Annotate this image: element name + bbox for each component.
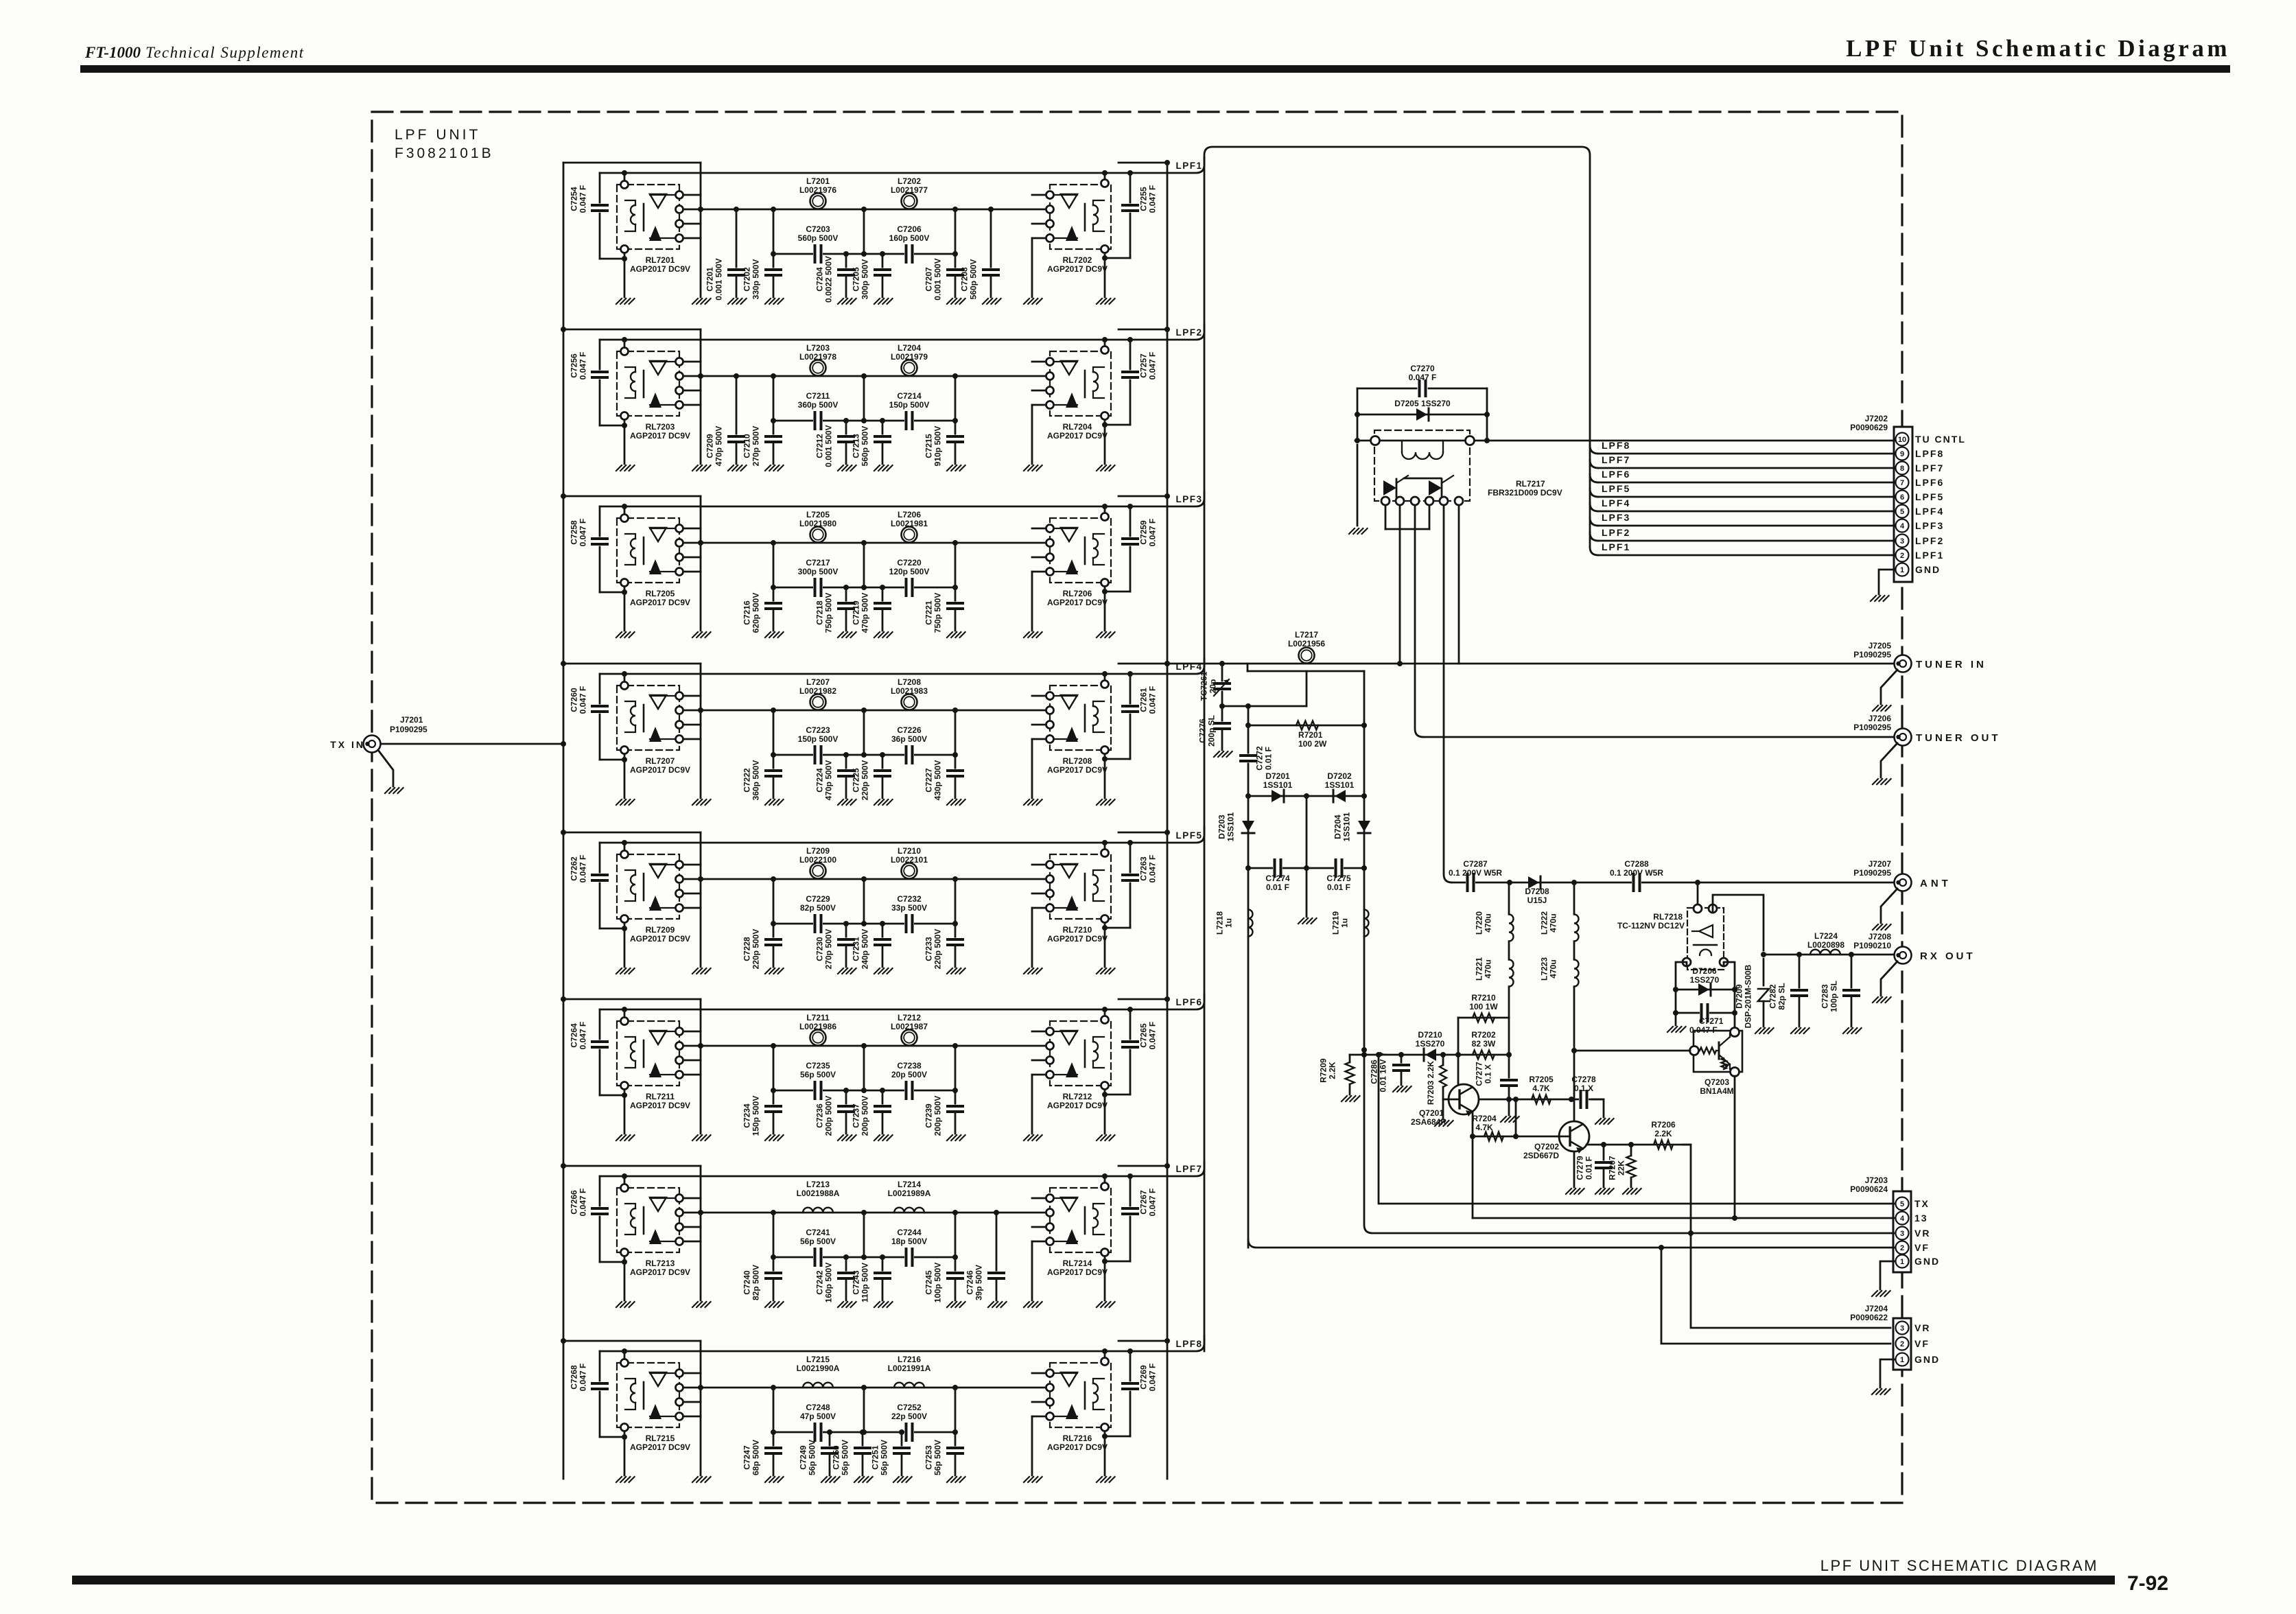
svg-text:C7259: C7259 bbox=[1139, 520, 1149, 545]
svg-text:C7271: C7271 bbox=[1699, 1016, 1724, 1026]
svg-text:P0090629: P0090629 bbox=[1850, 423, 1888, 432]
diode D7210 1SS270 bbox=[1425, 1049, 1436, 1061]
wire Q7202 emitter to ground bbox=[1573, 1151, 1575, 1187]
svg-text:0.047 F: 0.047 F bbox=[578, 1364, 588, 1392]
svg-text:LPF8: LPF8 bbox=[1175, 1339, 1202, 1349]
branch line bbox=[773, 253, 955, 255]
svg-text:DSP-201M-S00B: DSP-201M-S00B bbox=[1744, 964, 1753, 1028]
svg-text:C7239: C7239 bbox=[924, 1103, 934, 1128]
svg-text:R7209: R7209 bbox=[1319, 1058, 1328, 1083]
capacitor C7235 56p 500V bbox=[813, 1082, 823, 1099]
capacitor C7262 0.047F bbox=[599, 843, 601, 872]
coil rail bbox=[600, 491, 1204, 506]
svg-text:8: 8 bbox=[1900, 465, 1904, 473]
svg-text:1SS270: 1SS270 bbox=[1690, 975, 1720, 985]
svg-text:L0022101: L0022101 bbox=[891, 855, 928, 865]
pin 3 VR bbox=[1896, 1227, 1909, 1240]
svg-text:470u: 470u bbox=[1484, 913, 1493, 932]
main filter line bbox=[683, 710, 1046, 712]
svg-text:L0021977: L0021977 bbox=[891, 185, 928, 195]
svg-text:C7204: C7204 bbox=[815, 267, 825, 292]
svg-text:C7210: C7210 bbox=[742, 434, 752, 458]
svg-text:RL7202: RL7202 bbox=[1063, 255, 1092, 265]
transistor Q7202 2SD667D bbox=[1559, 1121, 1589, 1151]
svg-text:C7267: C7267 bbox=[1139, 1190, 1149, 1215]
svg-text:C7268: C7268 bbox=[570, 1365, 579, 1390]
svg-text:L7216: L7216 bbox=[898, 1355, 921, 1364]
svg-text:L0021990A: L0021990A bbox=[797, 1364, 840, 1373]
capacitor C7258 0.047F bbox=[599, 506, 601, 536]
pin 3 LPF2 bbox=[1896, 535, 1909, 548]
inductor L7221 470u bbox=[1508, 941, 1510, 959]
svg-text:L7208: L7208 bbox=[898, 677, 921, 687]
wire LPF4 bus bbox=[1598, 511, 1895, 513]
svg-text:LPF3: LPF3 bbox=[1915, 520, 1944, 531]
svg-text:L7212: L7212 bbox=[898, 1013, 921, 1022]
svg-text:LPF8: LPF8 bbox=[1915, 448, 1944, 459]
svg-text:RL7212: RL7212 bbox=[1063, 1092, 1092, 1101]
svg-text:C7266: C7266 bbox=[570, 1190, 579, 1215]
relay contact stubs bbox=[1032, 864, 1046, 866]
svg-text:C7248: C7248 bbox=[806, 1403, 830, 1412]
resistor R7206 2.2K bbox=[1654, 1141, 1673, 1149]
capacitor C7212 0.001 500V bbox=[843, 418, 849, 423]
TX input bus (left ladder) bbox=[563, 163, 565, 1479]
svg-text:FT-1000: FT-1000 bbox=[84, 44, 141, 61]
svg-text:100 1W: 100 1W bbox=[1469, 1002, 1498, 1011]
svg-text:C7262: C7262 bbox=[570, 856, 579, 881]
wire TX IN to bus bbox=[381, 743, 563, 745]
coil rail bbox=[600, 659, 1204, 674]
relay contact stubs bbox=[1032, 1372, 1046, 1375]
relay contact stubs bbox=[1032, 361, 1046, 363]
svg-text:0.01 F: 0.01 F bbox=[1264, 747, 1274, 770]
svg-text:D7205 1SS270: D7205 1SS270 bbox=[1394, 399, 1451, 408]
branch line bbox=[773, 1090, 955, 1092]
capacitor C7214 150p 500V bbox=[904, 412, 914, 429]
svg-text:R7205: R7205 bbox=[1529, 1075, 1554, 1084]
capacitor C7218 750p 500V bbox=[843, 585, 849, 590]
svg-text:0.047 F: 0.047 F bbox=[578, 352, 588, 380]
svg-text:TUNER IN: TUNER IN bbox=[1916, 659, 1987, 670]
svg-text:0.047 F: 0.047 F bbox=[1148, 1364, 1158, 1392]
capacitor C7244 18p 500V bbox=[904, 1249, 914, 1265]
svg-text:C7217: C7217 bbox=[806, 558, 830, 568]
capacitor C7255 0.047F bbox=[1129, 173, 1132, 202]
svg-text:47p 500V: 47p 500V bbox=[800, 1412, 836, 1421]
relay RL7203 (AGP2017 DC9V) bbox=[617, 351, 679, 416]
wire LPF8 bus bbox=[1598, 453, 1895, 455]
left frame vertical bbox=[700, 664, 702, 798]
inductor L7222 470u bbox=[1573, 882, 1575, 914]
relay contact stubs bbox=[1032, 194, 1046, 196]
svg-text:C7286: C7286 bbox=[1370, 1060, 1379, 1084]
wire relay to ANT line bbox=[1697, 882, 1699, 904]
svg-text:L7210: L7210 bbox=[898, 846, 921, 856]
capacitor C7260 0.047F bbox=[599, 674, 601, 703]
svg-text:2: 2 bbox=[1900, 552, 1904, 560]
svg-text:C7234: C7234 bbox=[742, 1103, 752, 1128]
svg-text:C7260: C7260 bbox=[570, 688, 579, 712]
svg-text:GND: GND bbox=[1915, 564, 1941, 575]
svg-text:AGP2017 DC9V: AGP2017 DC9V bbox=[1047, 1442, 1108, 1452]
svg-text:7-92: 7-92 bbox=[2127, 1572, 2168, 1595]
capacitor C7209 470p 500V bbox=[734, 373, 739, 379]
capacitor C7233 220p 500V bbox=[954, 924, 957, 939]
inductor L7220 470u bbox=[1508, 882, 1510, 914]
inductor L7210 L0022101 bbox=[902, 863, 917, 879]
capacitor C7231 240p 500V bbox=[880, 921, 885, 926]
svg-text:0.047 F: 0.047 F bbox=[578, 185, 588, 213]
relay contact stubs bbox=[683, 1372, 701, 1375]
svg-text:GND: GND bbox=[1914, 1354, 1940, 1365]
inductor L7209 L0022100 bbox=[810, 863, 826, 879]
block frame rungs bbox=[563, 162, 701, 164]
header rule bar bbox=[80, 65, 2230, 73]
svg-text:F3082101B: F3082101B bbox=[395, 145, 494, 161]
svg-text:L0021987: L0021987 bbox=[891, 1022, 928, 1031]
svg-text:4: 4 bbox=[1900, 1215, 1905, 1223]
capacitor C7241 56p 500V bbox=[813, 1249, 823, 1265]
pin 6 LPF5 bbox=[1896, 491, 1909, 504]
svg-text:VF: VF bbox=[1914, 1242, 1930, 1253]
relay contact stubs bbox=[1032, 1031, 1046, 1033]
pin 4 LPF3 bbox=[1896, 519, 1909, 533]
pin 3 VR bbox=[1896, 1322, 1909, 1335]
svg-text:20p 500V: 20p 500V bbox=[891, 1070, 927, 1079]
capacitor C7206 160p 500V bbox=[904, 246, 914, 262]
wire VR line bbox=[1363, 1049, 1366, 1051]
capacitor C7251 56p 500V bbox=[899, 1429, 904, 1435]
svg-text:LPF2: LPF2 bbox=[1602, 527, 1630, 538]
svg-text:100 2W: 100 2W bbox=[1298, 739, 1327, 749]
diode D7209 DSP-201M-S00B surge absorber bbox=[1763, 959, 1765, 985]
wire RX OUT line bbox=[1764, 954, 1894, 956]
svg-text:1: 1 bbox=[1900, 1258, 1904, 1266]
inductor L7216 L0021991A bbox=[894, 1383, 924, 1388]
wire Q7203 emitter to pin 4 line bbox=[1734, 1076, 1736, 1218]
inductor L7224 L0020898 bbox=[1810, 950, 1840, 955]
capacitor C7287 0.1 200V W5R bbox=[1466, 874, 1475, 891]
svg-text:C7219: C7219 bbox=[852, 600, 861, 625]
capacitor C7256 0.047F bbox=[599, 340, 601, 369]
capacitor C7259 0.047F bbox=[1129, 506, 1132, 536]
svg-text:J7204: J7204 bbox=[1865, 1304, 1888, 1313]
relay RL7210 (AGP2017 DC9V) bbox=[1050, 854, 1111, 919]
svg-text:C7288: C7288 bbox=[1624, 859, 1649, 869]
svg-text:AGP2017 DC9V: AGP2017 DC9V bbox=[1047, 431, 1108, 441]
capacitor C7245 100p 500V bbox=[954, 1257, 957, 1273]
pin 1 GND bbox=[1896, 563, 1909, 576]
svg-text:L0021979: L0021979 bbox=[891, 352, 928, 362]
pin 10 TU CNTL bbox=[1896, 433, 1909, 446]
svg-text:RL7205: RL7205 bbox=[646, 589, 675, 598]
svg-text:5: 5 bbox=[1900, 508, 1904, 516]
svg-text:C7238: C7238 bbox=[897, 1061, 922, 1071]
svg-text:C7243: C7243 bbox=[852, 1270, 861, 1295]
svg-text:TU CNTL: TU CNTL bbox=[1915, 434, 1966, 445]
relay top connection bbox=[1104, 340, 1106, 346]
capacitor C7217 300p 500V bbox=[813, 579, 823, 596]
svg-text:D7206: D7206 bbox=[1692, 966, 1717, 976]
svg-text:110p 500V: 110p 500V bbox=[860, 1263, 870, 1302]
svg-text:2SA684R: 2SA684R bbox=[1411, 1117, 1446, 1127]
relay top connection bbox=[1104, 674, 1106, 680]
svg-text:L7220: L7220 bbox=[1475, 911, 1484, 935]
svg-text:C7250: C7250 bbox=[832, 1445, 841, 1470]
svg-text:AGP2017 DC9V: AGP2017 DC9V bbox=[630, 934, 690, 944]
svg-text:AGP2017 DC9V: AGP2017 DC9V bbox=[1047, 598, 1108, 607]
svg-text:C7249: C7249 bbox=[799, 1445, 808, 1470]
pin 9 LPF8 bbox=[1896, 447, 1909, 460]
diode D7203 1SS101 bbox=[1242, 821, 1254, 832]
svg-text:200p 500V: 200p 500V bbox=[824, 1096, 834, 1136]
inductor L7203 L0021978 bbox=[810, 360, 826, 376]
svg-text:J7207: J7207 bbox=[1869, 859, 1892, 869]
svg-text:82p 500V: 82p 500V bbox=[751, 1265, 761, 1300]
capacitor C7261 0.047F bbox=[1129, 674, 1132, 703]
svg-text:910p 500V: 910p 500V bbox=[933, 426, 943, 467]
svg-text:RL7214: RL7214 bbox=[1063, 1259, 1092, 1268]
svg-text:C7244: C7244 bbox=[897, 1228, 922, 1237]
svg-text:1SS101: 1SS101 bbox=[1263, 780, 1293, 790]
capacitor C7222 360p 500V bbox=[773, 755, 775, 771]
svg-text:L7215: L7215 bbox=[806, 1355, 830, 1364]
main filter line bbox=[683, 1387, 1046, 1389]
capacitor C7234 150p 500V bbox=[773, 1090, 775, 1106]
pin 7 LPF6 bbox=[1896, 476, 1909, 489]
inductor L7212 L0021987 bbox=[902, 1030, 917, 1046]
svg-text:L7205: L7205 bbox=[806, 510, 830, 519]
svg-text:0.001 500V: 0.001 500V bbox=[714, 258, 724, 300]
svg-text:C7226: C7226 bbox=[897, 725, 922, 735]
resistor R7205 4.7K bbox=[1532, 1095, 1551, 1104]
svg-text:LPF3: LPF3 bbox=[1602, 512, 1630, 523]
svg-text:360p 500V: 360p 500V bbox=[798, 400, 839, 410]
svg-text:VF: VF bbox=[1914, 1338, 1930, 1349]
svg-text:120p 500V: 120p 500V bbox=[889, 567, 930, 576]
capacitor C7213 560p 500V bbox=[880, 418, 885, 423]
svg-text:C7251: C7251 bbox=[871, 1445, 880, 1470]
wire relay riser to ANT bbox=[1444, 505, 1452, 882]
svg-text:P0090624: P0090624 bbox=[1850, 1184, 1888, 1194]
LPF unit dashed border bbox=[372, 112, 1902, 1503]
svg-text:P1090295: P1090295 bbox=[1853, 650, 1891, 659]
svg-text:C7264: C7264 bbox=[570, 1023, 579, 1048]
svg-text:L7206: L7206 bbox=[898, 510, 921, 519]
svg-text:L7222: L7222 bbox=[1540, 911, 1549, 935]
svg-text:L0021988A: L0021988A bbox=[797, 1189, 840, 1198]
wire Q7201 emitter rail bbox=[1479, 1099, 1604, 1101]
svg-text:J7203: J7203 bbox=[1865, 1176, 1888, 1185]
svg-text:R7210: R7210 bbox=[1471, 993, 1496, 1003]
svg-text:220p 500V: 220p 500V bbox=[933, 929, 943, 970]
svg-text:D7208: D7208 bbox=[1525, 887, 1549, 896]
relay contact stubs bbox=[683, 528, 701, 530]
pin 5 LPF4 bbox=[1896, 505, 1909, 518]
wire Q7201 collector bbox=[1472, 1112, 1474, 1136]
svg-text:300p 500V: 300p 500V bbox=[798, 567, 839, 576]
svg-text:ANT: ANT bbox=[1920, 878, 1952, 889]
capacitor C7247 68p 500V bbox=[773, 1432, 775, 1448]
svg-text:200p 500V: 200p 500V bbox=[860, 1096, 870, 1136]
block frame rungs bbox=[563, 663, 701, 665]
svg-text:560p 500V: 560p 500V bbox=[969, 259, 979, 300]
svg-text:C7209: C7209 bbox=[705, 434, 715, 458]
relay contact stubs bbox=[1032, 1197, 1046, 1200]
svg-text:J7205: J7205 bbox=[1869, 641, 1892, 651]
svg-text:C7278: C7278 bbox=[1571, 1075, 1596, 1084]
pin 4 13 bbox=[1896, 1212, 1909, 1225]
wire GND pin to ground bbox=[1880, 1359, 1895, 1388]
relay RL7215 (AGP2017 DC9V) bbox=[617, 1363, 679, 1427]
left frame vertical bbox=[700, 999, 702, 1134]
pin 2 VF bbox=[1896, 1337, 1909, 1350]
svg-text:C7240: C7240 bbox=[742, 1270, 752, 1295]
svg-text:0.01 F: 0.01 F bbox=[1327, 882, 1350, 892]
svg-text:L7207: L7207 bbox=[806, 677, 830, 687]
relay top connection bbox=[1104, 173, 1106, 179]
left frame vertical bbox=[700, 1341, 702, 1475]
capacitor C7279 0.01F bbox=[1603, 1145, 1605, 1161]
svg-text:RL7209: RL7209 bbox=[646, 925, 675, 935]
svg-text:D7210: D7210 bbox=[1418, 1030, 1442, 1040]
main filter line bbox=[683, 1212, 1046, 1214]
coil rail bbox=[600, 1336, 1204, 1351]
capacitor C7207 0.001 500V bbox=[954, 254, 957, 270]
capacitor C7204 0.0022 500V bbox=[843, 251, 849, 257]
svg-text:0.047 F: 0.047 F bbox=[1148, 185, 1158, 213]
svg-text:P0090622: P0090622 bbox=[1850, 1313, 1888, 1322]
svg-text:C7279: C7279 bbox=[1575, 1156, 1585, 1180]
svg-text:L7218: L7218 bbox=[1215, 911, 1225, 935]
svg-text:750p 500V: 750p 500V bbox=[824, 593, 834, 633]
svg-text:56p 500V: 56p 500V bbox=[880, 1440, 889, 1475]
svg-text:LPF5: LPF5 bbox=[1915, 491, 1944, 502]
capacitor C7219 470p 500V bbox=[880, 585, 885, 590]
svg-text:1u: 1u bbox=[1224, 918, 1234, 928]
svg-text:0.047 F: 0.047 F bbox=[578, 519, 588, 547]
svg-text:LPF4: LPF4 bbox=[1915, 506, 1944, 517]
svg-text:0.047 F: 0.047 F bbox=[1148, 519, 1158, 547]
capacitor C7243 110p 500V bbox=[880, 1254, 885, 1260]
svg-text:C7241: C7241 bbox=[806, 1228, 830, 1237]
svg-text:L0021982: L0021982 bbox=[799, 686, 836, 696]
capacitor C7226 36p 500V bbox=[904, 747, 914, 763]
capacitor C7252 22p 500V bbox=[904, 1424, 914, 1440]
branch line bbox=[773, 1256, 955, 1259]
svg-text:RL7213: RL7213 bbox=[646, 1259, 675, 1268]
svg-text:1SS101: 1SS101 bbox=[1342, 812, 1352, 841]
inductor L7213 L0021988A bbox=[803, 1208, 833, 1213]
wire relay to RX node bbox=[1713, 895, 1764, 950]
svg-text:3: 3 bbox=[1900, 537, 1904, 546]
capacitor C7201 0.001 500V bbox=[734, 207, 739, 212]
svg-text:VR: VR bbox=[1914, 1228, 1930, 1239]
inductor L7219 1u bbox=[1363, 868, 1366, 1050]
svg-text:0.047 F: 0.047 F bbox=[1148, 1189, 1158, 1217]
svg-text:U15J: U15J bbox=[1527, 896, 1547, 905]
svg-text:C7272: C7272 bbox=[1255, 746, 1265, 771]
capacitor C7286 0.01 16V Y bbox=[1401, 1055, 1403, 1064]
svg-text:AGP2017 DC9V: AGP2017 DC9V bbox=[1047, 765, 1108, 775]
diode D7206 1SS270 bbox=[1676, 962, 1735, 1032]
svg-text:L7217: L7217 bbox=[1295, 630, 1318, 640]
svg-text:0.047 F: 0.047 F bbox=[578, 855, 588, 883]
svg-text:TC-112NV DC12V: TC-112NV DC12V bbox=[1617, 921, 1685, 931]
svg-text:C7265: C7265 bbox=[1139, 1023, 1149, 1048]
svg-text:C7212: C7212 bbox=[815, 434, 825, 458]
left frame vertical bbox=[700, 832, 702, 967]
capacitor C7220 120p 500V bbox=[904, 579, 914, 596]
LPF fan corners bbox=[1590, 445, 1598, 454]
svg-text:D7203: D7203 bbox=[1217, 815, 1227, 839]
svg-text:C7230: C7230 bbox=[815, 937, 825, 961]
svg-text:P1090295: P1090295 bbox=[390, 725, 427, 734]
relay contact stubs bbox=[683, 194, 701, 196]
relay coil return wires bbox=[1385, 505, 1387, 529]
capacitor C7225 220p 500V bbox=[880, 752, 885, 758]
diode D7204 1SS101 bbox=[1358, 821, 1370, 832]
svg-text:L7214: L7214 bbox=[898, 1180, 921, 1189]
capacitor C7263 0.047F bbox=[1129, 843, 1132, 872]
wire Q7202 output rail bbox=[1586, 1144, 1691, 1146]
svg-text:C7202: C7202 bbox=[742, 267, 752, 292]
inductor L7207 L0021982 bbox=[810, 694, 826, 710]
svg-text:L0021991A: L0021991A bbox=[888, 1364, 931, 1373]
relay RL7216 (AGP2017 DC9V) bbox=[1050, 1363, 1111, 1427]
svg-text:GND: GND bbox=[1914, 1256, 1940, 1267]
svg-text:0.047 F: 0.047 F bbox=[578, 1189, 588, 1217]
svg-text:C7252: C7252 bbox=[897, 1403, 922, 1412]
svg-text:C7233: C7233 bbox=[924, 937, 934, 961]
capacitor C7288 0.1 200V W5R bbox=[1632, 874, 1641, 891]
svg-text:C7254: C7254 bbox=[570, 187, 579, 211]
svg-text:AGP2017 DC9V: AGP2017 DC9V bbox=[630, 431, 690, 441]
svg-text:L7219: L7219 bbox=[1331, 911, 1341, 935]
wire LPF1 bus bbox=[1598, 554, 1895, 557]
inductor L7206 L0021981 bbox=[902, 527, 917, 543]
svg-text:C7215: C7215 bbox=[924, 434, 934, 458]
wire GND pin to ground bbox=[1879, 570, 1895, 594]
svg-text:RL7218: RL7218 bbox=[1653, 912, 1683, 922]
main filter line bbox=[683, 209, 1046, 211]
svg-text:3: 3 bbox=[1900, 1230, 1904, 1238]
svg-text:0.1 200V W5R: 0.1 200V W5R bbox=[1610, 868, 1663, 878]
svg-text:RX OUT: RX OUT bbox=[1920, 950, 1976, 962]
svg-text:C7229: C7229 bbox=[806, 894, 830, 904]
svg-text:240p 500V: 240p 500V bbox=[860, 929, 870, 970]
svg-text:L7213: L7213 bbox=[806, 1180, 830, 1189]
capacitor C7230 270p 500V bbox=[843, 921, 849, 926]
svg-text:C7203: C7203 bbox=[806, 224, 830, 234]
inductor L7218 1u bbox=[1247, 868, 1250, 1248]
svg-text:LPF6: LPF6 bbox=[1915, 477, 1944, 488]
svg-text:0.1 X: 0.1 X bbox=[1574, 1084, 1593, 1093]
svg-text:TUNER OUT: TUNER OUT bbox=[1916, 732, 2001, 744]
diode D7201 1SS101 bbox=[1248, 795, 1364, 797]
svg-text:C7274: C7274 bbox=[1265, 874, 1290, 883]
capacitor C7239 200p 500V bbox=[954, 1090, 957, 1106]
capacitor C7276 200p SL bbox=[1221, 706, 1223, 722]
svg-text:J7201: J7201 bbox=[400, 715, 423, 725]
capacitor C7249 56p 500V bbox=[827, 1429, 832, 1435]
resistor R7204 4.7K bbox=[1473, 1136, 1516, 1138]
main filter line bbox=[683, 375, 1046, 377]
svg-text:10: 10 bbox=[1898, 436, 1906, 444]
svg-text:Q7201: Q7201 bbox=[1419, 1108, 1444, 1118]
svg-text:C7277: C7277 bbox=[1475, 1062, 1484, 1086]
